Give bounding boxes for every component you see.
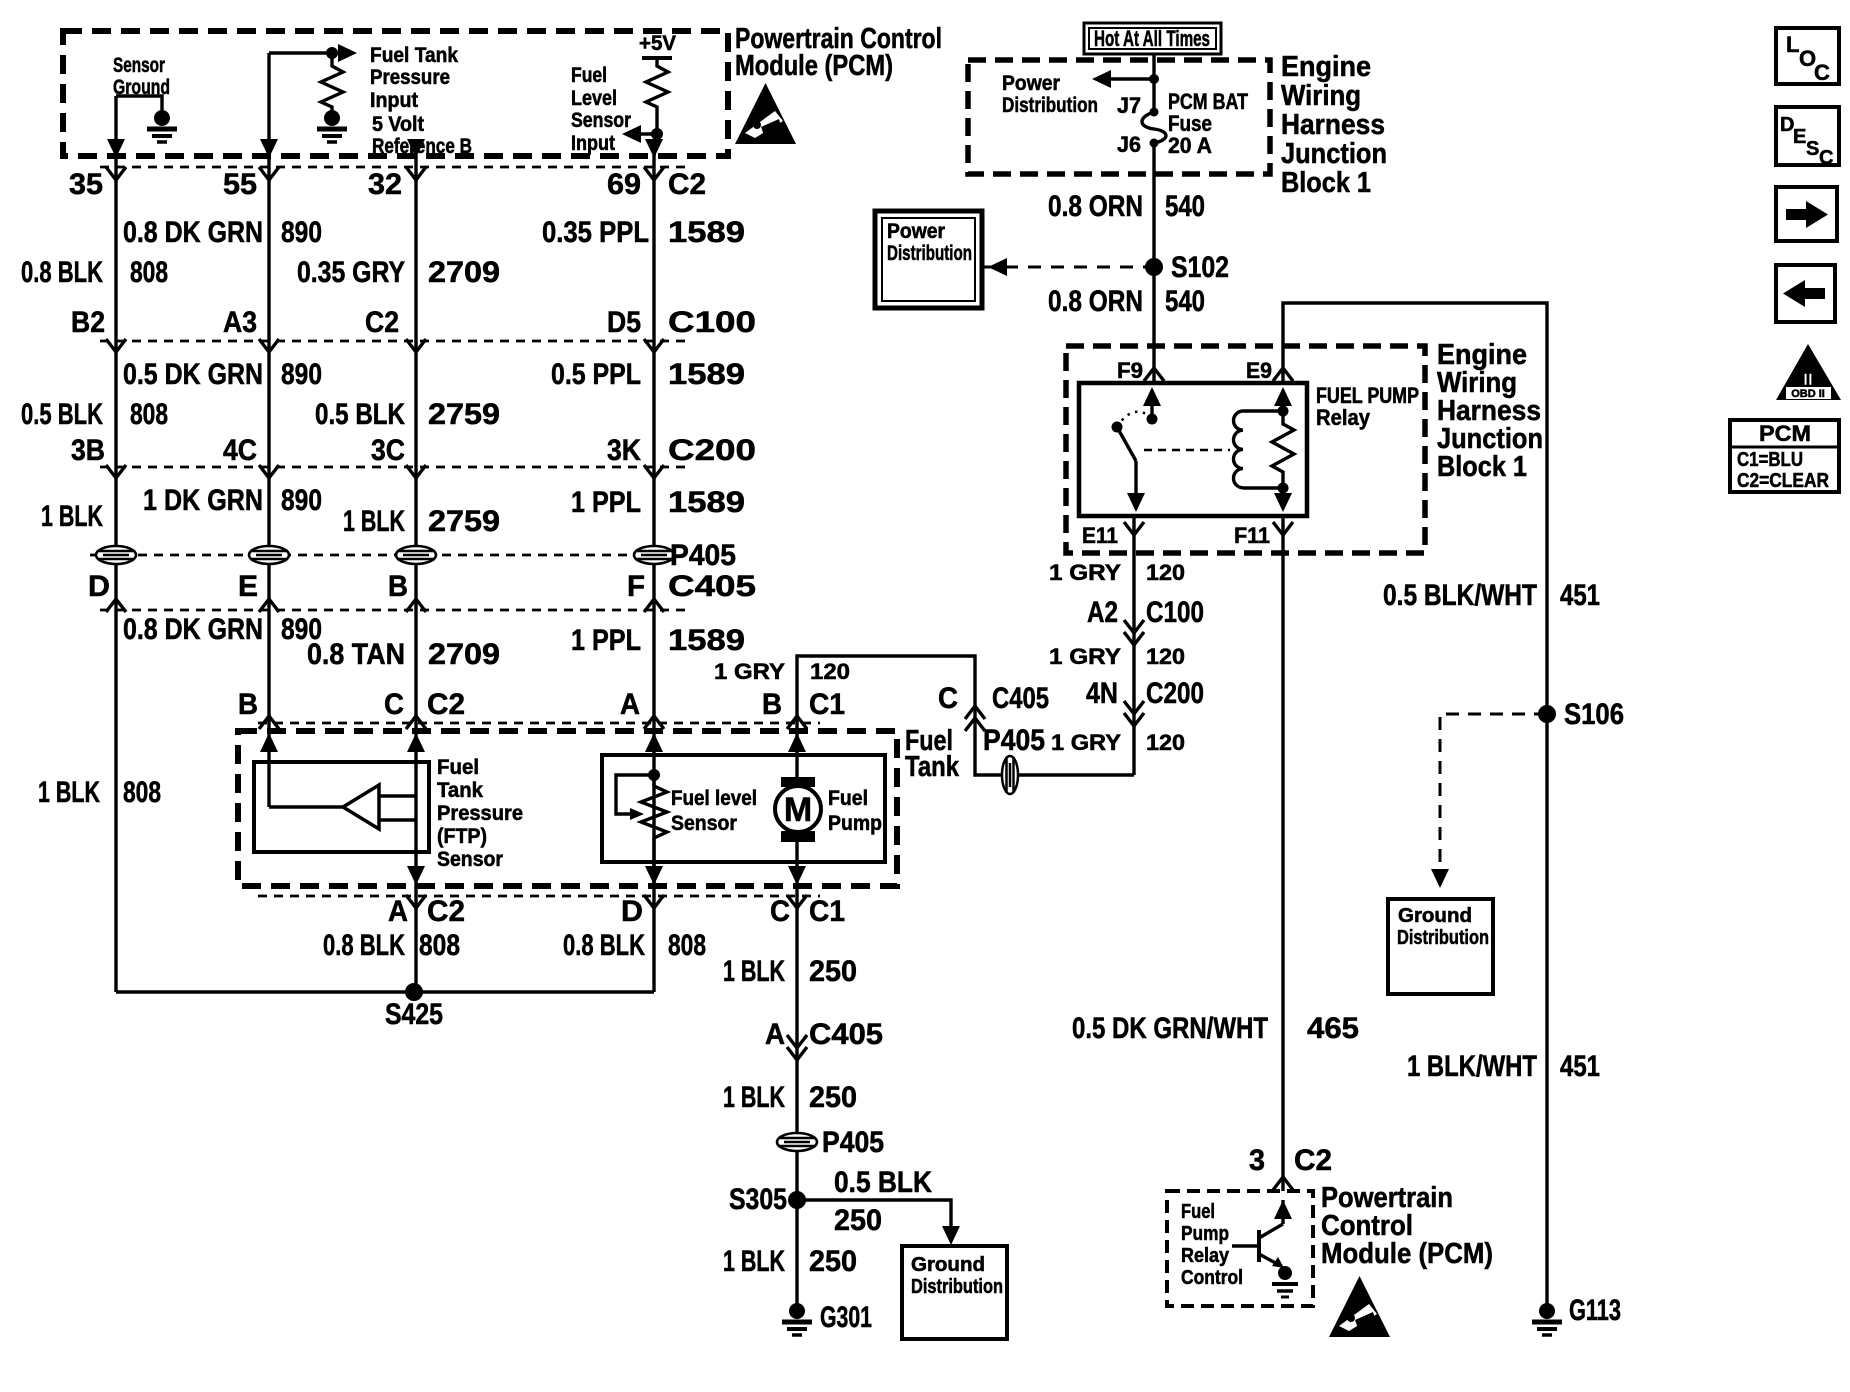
svg-text:Pressure: Pressure bbox=[437, 802, 523, 825]
svg-text:0.5 BLK/WHT: 0.5 BLK/WHT bbox=[1383, 579, 1537, 612]
svg-text:Input: Input bbox=[571, 132, 615, 155]
svg-text:A2: A2 bbox=[1087, 596, 1118, 629]
svg-text:1 GRY: 1 GRY bbox=[1049, 644, 1121, 669]
svg-text:808: 808 bbox=[123, 776, 161, 809]
svg-text:F11: F11 bbox=[1234, 523, 1270, 548]
svg-text:Ground: Ground bbox=[911, 1254, 985, 1276]
svg-text:A: A bbox=[765, 1018, 785, 1051]
svg-text:E: E bbox=[1793, 126, 1806, 148]
svg-text:Sensor: Sensor bbox=[437, 848, 503, 871]
svg-text:0.8 DK GRN: 0.8 DK GRN bbox=[123, 613, 263, 646]
svg-text:C: C bbox=[384, 688, 404, 721]
svg-text:1 DK GRN: 1 DK GRN bbox=[143, 484, 263, 517]
svg-text:Fuel: Fuel bbox=[437, 756, 479, 779]
svg-text:250: 250 bbox=[809, 955, 857, 988]
svg-text:Fuel: Fuel bbox=[1181, 1201, 1215, 1223]
svg-text:250: 250 bbox=[834, 1204, 882, 1237]
svg-text:Engine: Engine bbox=[1281, 51, 1371, 83]
svg-text:3: 3 bbox=[1249, 1144, 1265, 1177]
svg-text:2759: 2759 bbox=[428, 398, 500, 431]
svg-text:Power: Power bbox=[887, 220, 945, 243]
svg-text:S102: S102 bbox=[1171, 251, 1229, 284]
svg-text:Distribution: Distribution bbox=[911, 1276, 1003, 1298]
svg-text:F9: F9 bbox=[1117, 358, 1143, 383]
svg-text:5 Volt: 5 Volt bbox=[372, 113, 424, 136]
svg-text:Block 1: Block 1 bbox=[1437, 451, 1527, 483]
svg-text:1 BLK: 1 BLK bbox=[343, 505, 405, 538]
svg-text:Sensor: Sensor bbox=[571, 109, 631, 132]
svg-text:D: D bbox=[621, 895, 643, 928]
svg-text:120: 120 bbox=[1146, 644, 1185, 669]
svg-text:0.8 ORN: 0.8 ORN bbox=[1048, 190, 1143, 223]
svg-text:1589: 1589 bbox=[668, 624, 745, 657]
svg-text:Pump: Pump bbox=[828, 812, 882, 835]
svg-text:540: 540 bbox=[1165, 285, 1205, 318]
svg-text:S106: S106 bbox=[1564, 698, 1624, 731]
svg-text:Fuel level: Fuel level bbox=[671, 787, 757, 810]
svg-text:120: 120 bbox=[1146, 730, 1185, 755]
svg-text:Module (PCM): Module (PCM) bbox=[735, 50, 893, 82]
svg-text:B: B bbox=[238, 688, 258, 721]
svg-text:Fuel Tank: Fuel Tank bbox=[370, 44, 458, 67]
svg-text:Fuel: Fuel bbox=[828, 787, 868, 810]
svg-text:1 GRY: 1 GRY bbox=[1051, 730, 1121, 755]
svg-text:890: 890 bbox=[281, 484, 322, 517]
svg-text:A: A bbox=[620, 688, 640, 721]
svg-text:Pump: Pump bbox=[1181, 1223, 1229, 1245]
svg-text:Ground: Ground bbox=[1398, 905, 1472, 927]
svg-text:120: 120 bbox=[810, 659, 850, 684]
svg-text:0.5 BLK: 0.5 BLK bbox=[315, 398, 405, 431]
svg-text:Module (PCM): Module (PCM) bbox=[1321, 1238, 1493, 1270]
svg-text:C: C bbox=[1819, 147, 1833, 169]
svg-text:F: F bbox=[627, 570, 645, 603]
svg-text:Distribution: Distribution bbox=[887, 242, 972, 265]
svg-text:Level: Level bbox=[571, 87, 617, 110]
svg-text:69: 69 bbox=[607, 168, 641, 201]
svg-text:250: 250 bbox=[809, 1081, 857, 1114]
svg-text:C1: C1 bbox=[809, 688, 845, 721]
svg-text:1 PPL: 1 PPL bbox=[571, 486, 641, 519]
svg-text:Relay: Relay bbox=[1316, 405, 1371, 430]
svg-text:M: M bbox=[784, 791, 812, 829]
svg-text:2709: 2709 bbox=[428, 638, 500, 671]
svg-text:Hot At All Times: Hot At All Times bbox=[1094, 26, 1210, 51]
svg-text:0.5 DK GRN: 0.5 DK GRN bbox=[123, 358, 263, 391]
svg-text:S: S bbox=[1806, 138, 1819, 160]
svg-text:20 A: 20 A bbox=[1168, 133, 1212, 158]
svg-text:0.8 BLK: 0.8 BLK bbox=[563, 929, 645, 962]
svg-text:1589: 1589 bbox=[668, 486, 745, 519]
svg-text:540: 540 bbox=[1165, 190, 1205, 223]
svg-text:D5: D5 bbox=[607, 306, 641, 339]
svg-text:A: A bbox=[388, 895, 408, 928]
svg-text:PCM: PCM bbox=[1759, 421, 1811, 446]
svg-text:OBD II: OBD II bbox=[1791, 388, 1825, 400]
svg-text:C2=CLEAR: C2=CLEAR bbox=[1737, 470, 1829, 492]
svg-text:B2: B2 bbox=[71, 306, 105, 339]
svg-text:Power: Power bbox=[1002, 72, 1060, 95]
svg-text:1 GRY: 1 GRY bbox=[1049, 560, 1121, 585]
svg-text:0.8 TAN: 0.8 TAN bbox=[307, 638, 405, 671]
svg-text:+5V: +5V bbox=[639, 32, 676, 55]
svg-text:1589: 1589 bbox=[668, 216, 745, 249]
svg-text:1589: 1589 bbox=[668, 358, 745, 391]
svg-text:0.8 BLK: 0.8 BLK bbox=[21, 256, 103, 289]
svg-text:Fuel: Fuel bbox=[571, 64, 607, 87]
svg-text:C: C bbox=[938, 682, 958, 715]
svg-text:C405: C405 bbox=[809, 1018, 883, 1051]
svg-text:C100: C100 bbox=[668, 306, 756, 339]
svg-text:890: 890 bbox=[281, 216, 322, 249]
svg-text:1 GRY: 1 GRY bbox=[714, 659, 785, 684]
svg-text:4N: 4N bbox=[1086, 677, 1118, 710]
svg-text:Harness: Harness bbox=[1281, 109, 1385, 141]
svg-text:Block 1: Block 1 bbox=[1281, 167, 1371, 199]
svg-text:C100: C100 bbox=[1146, 596, 1204, 629]
svg-text:P405: P405 bbox=[983, 724, 1045, 757]
svg-text:P405: P405 bbox=[822, 1126, 884, 1159]
svg-text:Tank: Tank bbox=[437, 779, 483, 802]
svg-text:0.5 PPL: 0.5 PPL bbox=[551, 358, 641, 391]
svg-text:C405: C405 bbox=[668, 570, 756, 603]
svg-text:C1=BLU: C1=BLU bbox=[1737, 449, 1803, 471]
svg-text:0.5 BLK: 0.5 BLK bbox=[21, 398, 103, 431]
svg-text:J6: J6 bbox=[1117, 132, 1141, 157]
svg-text:120: 120 bbox=[1146, 560, 1185, 585]
svg-text:E9: E9 bbox=[1246, 358, 1272, 383]
svg-text:Distribution: Distribution bbox=[1397, 927, 1489, 949]
svg-text:G301: G301 bbox=[820, 1301, 872, 1334]
svg-text:3B: 3B bbox=[71, 434, 105, 467]
svg-text:451: 451 bbox=[1560, 579, 1600, 612]
svg-text:0.8 DK GRN: 0.8 DK GRN bbox=[123, 216, 263, 249]
svg-text:1 BLK: 1 BLK bbox=[41, 500, 103, 533]
svg-text:C1: C1 bbox=[809, 895, 845, 928]
svg-text:465: 465 bbox=[1307, 1012, 1359, 1045]
svg-text:C2: C2 bbox=[668, 168, 706, 201]
svg-text:L: L bbox=[1786, 32, 1799, 57]
svg-text:C2: C2 bbox=[1294, 1144, 1332, 1177]
svg-text:Junction: Junction bbox=[1281, 138, 1387, 170]
svg-text:808: 808 bbox=[668, 929, 706, 962]
svg-text:D: D bbox=[88, 570, 110, 603]
svg-text:0.8 ORN: 0.8 ORN bbox=[1048, 285, 1143, 318]
svg-text:55: 55 bbox=[223, 168, 257, 201]
svg-text:Sensor: Sensor bbox=[113, 54, 165, 77]
svg-text:Relay: Relay bbox=[1181, 1245, 1230, 1267]
svg-text:Wiring: Wiring bbox=[1281, 80, 1361, 112]
svg-text:G113: G113 bbox=[1569, 1294, 1621, 1327]
svg-text:E11: E11 bbox=[1082, 523, 1118, 548]
svg-text:808: 808 bbox=[130, 256, 168, 289]
svg-text:Input: Input bbox=[370, 89, 418, 112]
svg-text:C: C bbox=[770, 895, 790, 928]
svg-text:2759: 2759 bbox=[428, 505, 500, 538]
svg-text:Distribution: Distribution bbox=[1002, 94, 1098, 117]
svg-text:C2: C2 bbox=[427, 688, 465, 721]
svg-text:Reference B: Reference B bbox=[372, 135, 472, 158]
svg-text:4C: 4C bbox=[223, 434, 257, 467]
svg-text:0.35 PPL: 0.35 PPL bbox=[542, 216, 649, 249]
svg-text:Sensor: Sensor bbox=[671, 812, 737, 835]
svg-text:C: C bbox=[1814, 60, 1830, 85]
svg-text:32: 32 bbox=[368, 168, 402, 201]
svg-text:Tank: Tank bbox=[905, 751, 960, 783]
svg-text:1 BLK: 1 BLK bbox=[38, 776, 100, 809]
svg-text:J7: J7 bbox=[1117, 93, 1141, 118]
svg-text:0.8 BLK: 0.8 BLK bbox=[323, 929, 405, 962]
svg-text:A3: A3 bbox=[223, 306, 257, 339]
svg-text:C2: C2 bbox=[427, 895, 465, 928]
svg-text:C405: C405 bbox=[992, 682, 1049, 715]
svg-text:Pressure: Pressure bbox=[370, 66, 450, 89]
svg-text:3C: 3C bbox=[371, 434, 405, 467]
svg-text:E: E bbox=[238, 570, 258, 603]
svg-text:P405: P405 bbox=[670, 539, 736, 572]
svg-text:1 PPL: 1 PPL bbox=[571, 624, 641, 657]
svg-text:C200: C200 bbox=[1146, 677, 1204, 710]
svg-text:B: B bbox=[762, 688, 782, 721]
svg-text:808: 808 bbox=[419, 929, 460, 962]
svg-text:II: II bbox=[1803, 370, 1812, 389]
svg-text:Control: Control bbox=[1181, 1267, 1243, 1289]
svg-text:35: 35 bbox=[69, 168, 103, 201]
svg-text:0.5 BLK: 0.5 BLK bbox=[834, 1166, 932, 1199]
svg-text:S305: S305 bbox=[729, 1183, 787, 1216]
svg-text:890: 890 bbox=[281, 358, 322, 391]
svg-text:0.35 GRY: 0.35 GRY bbox=[297, 256, 405, 289]
svg-text:250: 250 bbox=[809, 1245, 857, 1278]
svg-text:3K: 3K bbox=[607, 434, 641, 467]
svg-text:1 BLK: 1 BLK bbox=[723, 955, 785, 988]
svg-text:1 BLK: 1 BLK bbox=[723, 1081, 785, 1114]
svg-text:1 BLK: 1 BLK bbox=[723, 1245, 785, 1278]
svg-text:0.5 DK GRN/WHT: 0.5 DK GRN/WHT bbox=[1072, 1012, 1268, 1045]
svg-text:C200: C200 bbox=[668, 434, 756, 467]
svg-text:(FTP): (FTP) bbox=[437, 825, 487, 848]
svg-text:2709: 2709 bbox=[428, 256, 500, 289]
svg-text:C2: C2 bbox=[365, 306, 399, 339]
svg-text:S425: S425 bbox=[385, 998, 443, 1031]
svg-text:1 BLK/WHT: 1 BLK/WHT bbox=[1407, 1050, 1537, 1083]
svg-text:808: 808 bbox=[130, 398, 168, 431]
svg-text:B: B bbox=[388, 570, 408, 603]
svg-text:451: 451 bbox=[1560, 1050, 1600, 1083]
